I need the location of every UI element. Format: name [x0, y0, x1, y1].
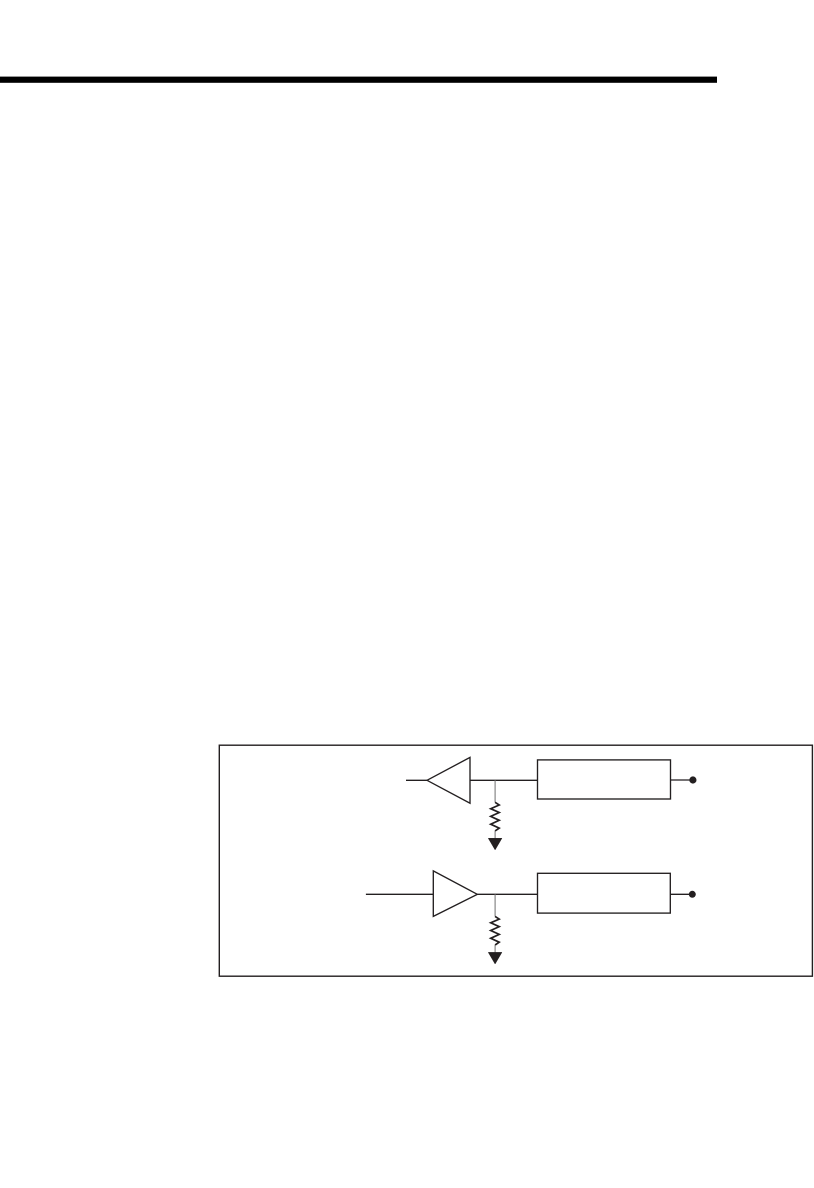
- node: bottom row terminal dot: [689, 891, 696, 898]
- op-amp buffer U1 (left-pointing triangle, top row): [427, 757, 470, 803]
- series element box (bottom row): [538, 873, 671, 913]
- node A: top row junction stub: [494, 780, 496, 802]
- resistor R1 (top row pulldown zigzag): [491, 802, 500, 831]
- resistor R2 (bottom row pulldown zigzag): [491, 916, 500, 945]
- wire: top row triangle base to series box: [470, 779, 538, 781]
- page header rule: [0, 77, 717, 83]
- wire: bottom row box to terminal: [670, 893, 689, 895]
- wire: top row box to terminal: [671, 779, 691, 781]
- node B: bottom row junction stub: [494, 894, 496, 916]
- ground (bottom row arrow symbol): [488, 952, 502, 964]
- wire: bottom row triangle tip to series box: [477, 893, 537, 895]
- wire: top row left stub: [406, 779, 428, 781]
- wire: bottom row input: [366, 893, 433, 895]
- op-amp buffer U2 (right-pointing triangle, bottom row): [433, 871, 477, 917]
- wire: bottom row resistor lower stub: [494, 945, 496, 953]
- series element box (top row): [538, 760, 671, 799]
- wire: top row resistor lower stub: [494, 831, 496, 839]
- figure border box: [219, 745, 812, 976]
- ground (top row arrow symbol): [488, 838, 502, 850]
- node: top row terminal dot: [689, 776, 696, 783]
